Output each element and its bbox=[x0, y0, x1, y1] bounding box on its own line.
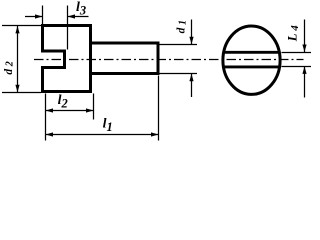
dimension d1 upper arrow line bbox=[191, 20, 193, 45]
slot upper chord bbox=[224, 51, 279, 54]
svg-text:d2: d2 bbox=[3, 61, 16, 74]
dimension l3 extension line right (slot bottom extended) bbox=[67, 6, 69, 50]
svg-text:l1: l1 bbox=[103, 116, 113, 133]
dimension L4 extension line bottom (slot lower edge extended right) bbox=[282, 66, 312, 68]
dimension l1 line with arrows bbox=[46, 134, 159, 136]
dimension d1 extension line bottom (shank bottom extended right) bbox=[160, 73, 198, 75]
end view head circle (ellipse) bbox=[223, 26, 280, 94]
dimension L4 extension line top (slot upper edge extended right) bbox=[282, 52, 312, 54]
dimension l1 extension line right (shank end extended down) bbox=[158, 76, 160, 141]
svg-text:L4: L4 bbox=[286, 25, 301, 42]
svg-text:l3: l3 bbox=[76, 0, 86, 17]
screw head outline with slot notch bbox=[43, 26, 91, 92]
dimension l3 left arrow bbox=[25, 16, 43, 18]
centerline axis bbox=[34, 59, 304, 61]
dimension d2 extension line bottom bbox=[2, 92, 41, 94]
dimension d1 lower arrow line bbox=[191, 74, 193, 97]
dimension d1 extension line top (shank top extended right) bbox=[160, 44, 198, 46]
dimension l3 right arrow bbox=[68, 16, 89, 18]
dimension l3 extension line left (head top face extended up) bbox=[42, 6, 44, 25]
dimension l2 extension line right bbox=[93, 94, 95, 120]
svg-text:d1: d1 bbox=[176, 20, 189, 33]
dimension d2 line with arrows bbox=[17, 26, 19, 92]
dimension l2 extension line left bbox=[45, 94, 47, 141]
slot lower chord bbox=[224, 65, 279, 68]
dimension d2 extension line top bbox=[2, 25, 41, 27]
svg-text:l2: l2 bbox=[58, 93, 68, 111]
dimension L4 lower arrow line bbox=[304, 66, 306, 97]
dimension l2 line with arrows bbox=[46, 110, 94, 112]
shank (screw body) bbox=[91, 43, 159, 74]
dimension L4 upper arrow line bbox=[304, 20, 306, 53]
